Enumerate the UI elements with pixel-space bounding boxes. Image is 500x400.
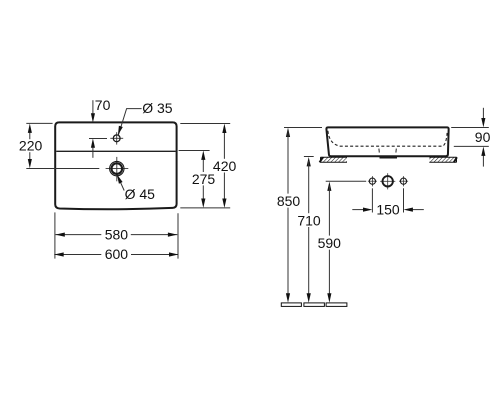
svg-text:275: 275 bbox=[192, 171, 216, 187]
svg-text:220: 220 bbox=[19, 138, 43, 154]
svg-text:150: 150 bbox=[376, 202, 400, 218]
svg-text:710: 710 bbox=[297, 212, 321, 228]
svg-text:850: 850 bbox=[277, 193, 301, 209]
svg-text:580: 580 bbox=[105, 227, 129, 243]
svg-text:Ø 45: Ø 45 bbox=[125, 186, 156, 202]
svg-text:420: 420 bbox=[213, 158, 237, 174]
svg-text:90: 90 bbox=[475, 129, 491, 145]
svg-text:70: 70 bbox=[95, 97, 111, 113]
svg-text:Ø 35: Ø 35 bbox=[142, 100, 173, 116]
svg-text:590: 590 bbox=[318, 235, 342, 251]
svg-text:600: 600 bbox=[105, 246, 129, 262]
